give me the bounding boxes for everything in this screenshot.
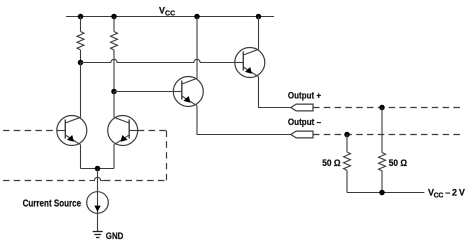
wire (dashed): Q2 base to dashed return [138, 130, 167, 132]
wire: R2 bottom to Q3 base [114, 91, 174, 93]
wire: termination bottom rail to VCC-2V [347, 192, 424, 194]
resistor R4 (50 ohm termination, right) [379, 108, 386, 193]
svg-text:50 Ω: 50 Ω [389, 158, 407, 168]
pin pad: Output + [291, 104, 313, 111]
label Output + [288, 91, 322, 101]
wire: VCC top rail [66, 16, 274, 18]
svg-text:50 Ω: 50 Ω [322, 158, 340, 168]
svg-text:VCC – 2 V: VCC – 2 V [428, 188, 465, 200]
svg-text:Current Source: Current Source [23, 198, 82, 209]
node: rail/R1 junction [78, 14, 84, 20]
wire (dashed): right vertical of dashed loop [166, 131, 168, 181]
label GND [106, 231, 124, 241]
node: Output- / R3 junction [344, 132, 350, 138]
wire: Q1 collector up to node [80, 63, 82, 118]
resistor R2 (load) [111, 17, 118, 92]
label Output - [288, 117, 321, 127]
svg-text:VCC: VCC [159, 6, 175, 18]
transistor Q3 (emitter follower, NPN) [173, 77, 203, 107]
transistor Q4 (emitter follower, NPN) [235, 48, 265, 78]
wire (dashed): input to Q1 base [3, 130, 57, 132]
wire (dashed): bottom dashed line with hop over emitter wire [3, 180, 91, 182]
wire: Q1 emitter down to common node [80, 145, 82, 169]
resistor R1 (load) [77, 17, 84, 63]
wire (dashed): Output - transmission line [313, 134, 464, 136]
current source I1 [87, 192, 109, 214]
transistor Q1 (diff pair left, NPN) [57, 116, 87, 146]
node: rail/R2 junction [111, 14, 117, 20]
transistor Q2 (diff pair right, NPN, mirrored) [108, 116, 138, 146]
wire: emitter bus [81, 168, 115, 170]
node: rail/Q3 collector junction [194, 14, 200, 20]
wire: Q4 emitter to Output + pad [259, 77, 291, 108]
wire: R1 bottom to Q4 base, hops over R2 wire and Q3 collector [81, 59, 235, 62]
node: termination bottom junction [379, 190, 385, 196]
label VCC - 2 V [428, 188, 465, 200]
wire: Q2 emitter down to common node [113, 145, 115, 169]
wire (dashed): Output + transmission line [313, 107, 464, 109]
node: R1 bottom / Q1 collector / Q4 base [78, 60, 84, 66]
node: Output+ / R4 junction [379, 105, 385, 111]
svg-text:Output +: Output + [288, 91, 322, 101]
ground [93, 232, 103, 238]
label 50 ohm (left) [322, 158, 340, 168]
label VCC [159, 6, 175, 18]
wire: Q3 collector to VCC [196, 17, 198, 79]
node: R2 bottom / Q2 collector / Q3 base [111, 89, 117, 95]
wire: Q2 collector up to node [113, 92, 115, 118]
wire: common emitter to current source to ground [97, 169, 99, 232]
svg-text:GND: GND [106, 231, 124, 241]
resistor R3 (50 ohm termination, left) [344, 135, 351, 193]
wire: Q3 emitter to Output - pad [197, 106, 291, 135]
pin pad: Output - [291, 131, 313, 138]
label 50 ohm (right) [389, 158, 407, 168]
svg-text:Output –: Output – [288, 117, 321, 127]
label Current Source [23, 198, 82, 209]
wire: Q4 collector to VCC [258, 17, 260, 50]
node: common emitter junction [95, 166, 101, 172]
node: rail/Q4 collector junction [256, 14, 262, 20]
